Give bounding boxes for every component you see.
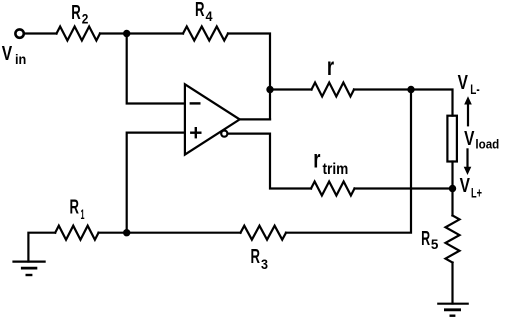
junction node A bbox=[123, 30, 130, 37]
op-amp U1 bbox=[185, 84, 240, 154]
svg-text:L+: L+ bbox=[471, 184, 482, 200]
input terminal Vin bbox=[15, 29, 23, 37]
svg-text:1: 1 bbox=[81, 206, 85, 222]
wire R1 to ground bbox=[28, 233, 55, 262]
op-amp lower terminal circle bbox=[221, 131, 227, 137]
svg-text:V: V bbox=[2, 43, 13, 65]
junction VL+ node bbox=[449, 185, 456, 192]
svg-text:R: R bbox=[195, 0, 205, 21]
svg-text:4: 4 bbox=[206, 8, 213, 24]
junction node B bbox=[123, 229, 130, 236]
svg-text:V: V bbox=[458, 72, 469, 94]
junction r node bbox=[407, 86, 414, 93]
svg-text:in: in bbox=[15, 51, 26, 67]
wire R2 to R4 bbox=[100, 32, 183, 34]
ground left bbox=[14, 261, 45, 263]
resistor rtrim bbox=[311, 182, 355, 196]
wire load bottom to VL+ node bbox=[451, 162, 453, 189]
wire terminal to R2 bbox=[24, 32, 57, 34]
ground right bbox=[438, 303, 467, 305]
svg-text:R: R bbox=[70, 197, 80, 219]
wire node B to non-inverting input bbox=[127, 133, 185, 233]
wire R4 to output vertical bbox=[228, 34, 270, 120]
wire R3 to node B bbox=[99, 232, 241, 234]
svg-text:3: 3 bbox=[261, 256, 268, 272]
wire rtrim to VL+ node bbox=[355, 187, 453, 189]
svg-text:V: V bbox=[460, 175, 471, 197]
svg-text:V: V bbox=[464, 128, 475, 150]
svg-text:R: R bbox=[421, 228, 430, 250]
wire VL+ node to R5 bbox=[451, 189, 453, 216]
load rectangle bbox=[447, 116, 457, 162]
svg-text:r: r bbox=[313, 145, 320, 173]
svg-text:2: 2 bbox=[82, 10, 89, 26]
op-amp output wire bbox=[240, 118, 270, 120]
svg-text:5: 5 bbox=[431, 236, 439, 252]
wire R5 to ground bbox=[451, 263, 453, 304]
resistor R4 bbox=[183, 27, 228, 41]
Vload arrow down bbox=[466, 149, 468, 168]
resistor R2 bbox=[57, 27, 101, 41]
arrowhead down bbox=[464, 167, 472, 175]
svg-text:R: R bbox=[251, 246, 261, 268]
resistor R5 bbox=[446, 216, 460, 263]
svg-text:R: R bbox=[71, 2, 81, 24]
svg-text:trim: trim bbox=[323, 161, 349, 178]
svg-text:r: r bbox=[327, 53, 334, 81]
resistor r bbox=[312, 83, 355, 97]
wire node A to inverting input bbox=[127, 34, 185, 104]
svg-text:load: load bbox=[475, 136, 499, 151]
arrowhead up bbox=[464, 96, 472, 104]
junction output node bbox=[266, 86, 273, 93]
wire output node to r bbox=[270, 88, 312, 90]
wire lower terminal to rtrim bbox=[228, 134, 311, 189]
wire feedback vertical r node to R3 bbox=[286, 90, 411, 233]
op-amp minus sign bbox=[191, 102, 200, 104]
resistor R3 bbox=[241, 226, 287, 240]
wire r to VL- corner bbox=[354, 90, 453, 116]
op-amp plus sign bbox=[191, 131, 200, 133]
resistor R1 bbox=[55, 226, 98, 240]
Vload arrow up bbox=[467, 103, 469, 125]
svg-text:L-: L- bbox=[470, 81, 480, 97]
